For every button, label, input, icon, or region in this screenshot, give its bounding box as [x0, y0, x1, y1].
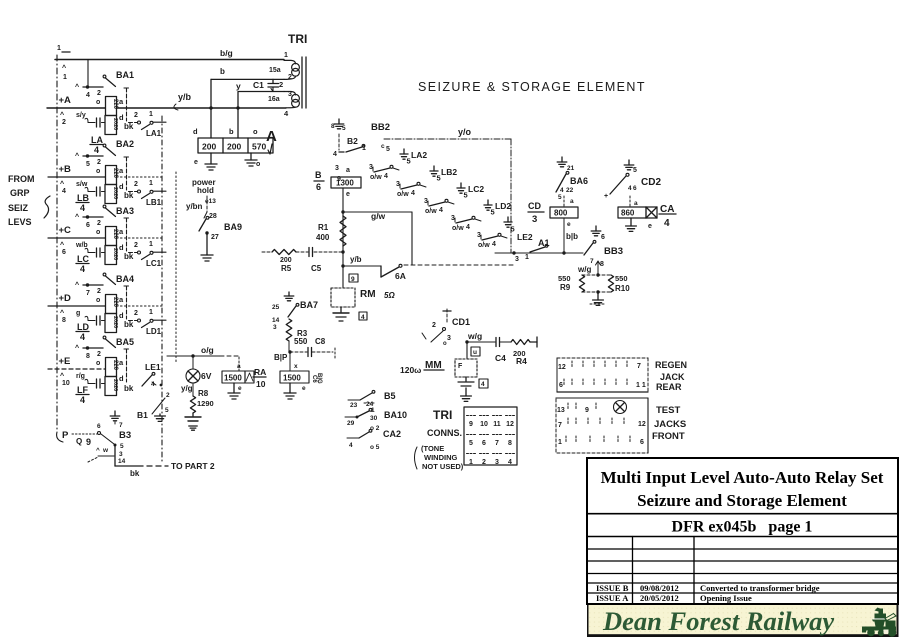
- wire y to TR1 pin3: [236, 81, 284, 92]
- relay contact LB1: [124, 180, 166, 207]
- svg-text:3: 3: [451, 215, 455, 222]
- svg-text:g: g: [76, 310, 80, 317]
- svg-text:Dean Forest Railway: Dean Forest Railway: [602, 606, 834, 636]
- svg-text:JACK: JACK: [660, 372, 685, 382]
- svg-text:3: 3: [447, 335, 451, 342]
- svg-text:4: 4: [80, 332, 85, 342]
- relay contact B1: [137, 392, 170, 421]
- svg-text:6: 6: [640, 439, 644, 446]
- relay contact LD1: [124, 309, 166, 336]
- svg-text:2: 2: [97, 351, 101, 358]
- svg-text:23: 23: [350, 402, 358, 409]
- wire y vertical: [237, 92, 239, 138]
- svg-text:6: 6: [86, 222, 90, 229]
- svg-text:5Ω: 5Ω: [384, 291, 395, 300]
- svg-text:Converted to transformer bridg: Converted to transformer bridge: [700, 583, 820, 593]
- node B/P capacitor C8 relay coil 1500: [274, 337, 335, 399]
- svg-text:2: 2: [166, 392, 170, 399]
- relay coil LD box: [96, 295, 124, 333]
- title text line2: [637, 491, 847, 510]
- issue row A: [596, 593, 752, 603]
- svg-text:R10: R10: [615, 284, 630, 293]
- svg-text:LB2: LB2: [441, 167, 457, 177]
- relay contact LA2 cascade: [369, 149, 427, 181]
- relay contact B2: [331, 119, 366, 183]
- capacitor LF: [85, 379, 105, 388]
- svg-text:27: 27: [211, 234, 219, 241]
- svg-text:o: o: [96, 297, 100, 304]
- svg-text:25: 25: [272, 304, 280, 311]
- svg-text:w/g: w/g: [577, 265, 591, 274]
- relay contact CA2: [347, 425, 401, 451]
- svg-text:c: c: [381, 143, 385, 150]
- svg-text:800: 800: [554, 209, 568, 218]
- svg-text:6V: 6V: [201, 371, 212, 381]
- svg-text:3: 3: [119, 451, 123, 458]
- relay coil CD 800: [528, 201, 578, 225]
- svg-text:220: 220: [112, 168, 118, 179]
- svg-text:o/w: o/w: [397, 191, 409, 198]
- relay coil MM 120ohm: [400, 342, 488, 401]
- relay coil B 1300: [314, 170, 361, 198]
- wire b to TR1 pin2: [211, 67, 284, 79]
- svg-text:7: 7: [590, 258, 594, 265]
- label TRI CONNS: [415, 408, 464, 471]
- svg-text:4: 4: [62, 188, 66, 195]
- svg-text:bk: bk: [124, 252, 134, 261]
- svg-text:d: d: [119, 243, 124, 252]
- wire cascade output: [495, 244, 583, 263]
- banner text Dean Forest Railway: [602, 606, 834, 636]
- svg-text:e: e: [346, 191, 350, 198]
- svg-text:w/g: w/g: [467, 331, 482, 341]
- relay contact BA7 and resistor R3 550: [272, 292, 318, 352]
- svg-text:LD1: LD1: [146, 327, 162, 336]
- svg-text:s/y: s/y: [76, 112, 86, 119]
- svg-text:a: a: [119, 358, 124, 367]
- relay contact LD2 cascade: [451, 200, 511, 232]
- svg-text:Seizure and Storage Element: Seizure and Storage Element: [637, 491, 847, 510]
- svg-text:2: 2: [134, 242, 138, 249]
- svg-text:d: d: [119, 374, 124, 383]
- relay coil RM: [331, 266, 395, 321]
- svg-text:4: 4: [411, 190, 415, 197]
- svg-text:b/g: b/g: [220, 48, 233, 58]
- relay contact B3 and wire TO PART 2: [62, 411, 215, 478]
- relay contact LE2 cascade: [477, 217, 515, 249]
- svg-text:4: 4: [80, 203, 85, 213]
- title text DFR ex045b page 1: [672, 519, 813, 536]
- capacitor LD: [85, 316, 105, 325]
- svg-text:4: 4: [284, 109, 289, 118]
- svg-text:RM: RM: [360, 289, 376, 300]
- relay contact 6A: [343, 255, 513, 281]
- node +B input label: [59, 164, 88, 195]
- svg-text:REGEN: REGEN: [655, 360, 687, 370]
- wire mid dot rail: [175, 172, 177, 362]
- svg-text:8: 8: [86, 353, 90, 360]
- svg-text:2: 2: [432, 322, 436, 329]
- svg-text:10: 10: [62, 380, 70, 387]
- svg-text:6: 6: [62, 249, 66, 256]
- wire drop to BA1: [62, 60, 88, 88]
- svg-text:Opening Issue: Opening Issue: [700, 593, 752, 603]
- svg-text:8: 8: [508, 440, 512, 447]
- svg-text:BA9: BA9: [224, 222, 242, 232]
- svg-text:DFR ex045b page 1: DFR ex045b page 1: [672, 519, 813, 536]
- wire y/o: [384, 127, 511, 253]
- svg-text:C8: C8: [315, 337, 326, 346]
- svg-text:F: F: [458, 363, 463, 370]
- svg-text:^: ^: [96, 446, 100, 454]
- svg-text:o/w: o/w: [370, 174, 382, 181]
- svg-text:7: 7: [86, 290, 90, 297]
- svg-text:2: 2: [134, 310, 138, 317]
- svg-text:JACKS: JACKS: [654, 419, 686, 430]
- svg-text:550: 550: [294, 337, 308, 346]
- svg-text:b: b: [229, 127, 234, 136]
- svg-text:e: e: [648, 223, 652, 230]
- svg-text:w/b: w/b: [75, 242, 88, 249]
- svg-text:y/bn: y/bn: [186, 202, 203, 211]
- svg-text:5: 5: [386, 146, 390, 153]
- svg-text:5: 5: [558, 194, 562, 201]
- svg-text:8: 8: [331, 123, 335, 130]
- svg-text:4: 4: [349, 442, 353, 449]
- title text line1: [601, 468, 884, 487]
- svg-text:2: 2: [97, 159, 101, 166]
- svg-text:20/05/2012: 20/05/2012: [640, 593, 679, 603]
- svg-text:x: x: [294, 363, 298, 370]
- svg-text:o: o: [256, 161, 260, 168]
- svg-text:a: a: [119, 295, 124, 304]
- svg-text:LF: LF: [77, 385, 88, 395]
- svg-text:R9: R9: [560, 283, 571, 292]
- svg-text:5: 5: [86, 161, 90, 168]
- relay contact BA5: [75, 336, 134, 382]
- svg-text:C4: C4: [495, 353, 506, 363]
- svg-text:1: 1: [469, 459, 473, 466]
- svg-text:Multi Input Level Auto-Auto Re: Multi Input Level Auto-Auto Relay Set: [601, 468, 884, 487]
- relay contact BA6: [556, 157, 588, 255]
- relay contact BA2: [75, 139, 134, 190]
- svg-text:P: P: [62, 430, 69, 441]
- svg-text:RA: RA: [254, 367, 266, 377]
- svg-text:g/w: g/w: [371, 211, 386, 221]
- svg-text:BA5: BA5: [116, 337, 134, 347]
- svg-text:^: ^: [75, 83, 79, 91]
- label REGEN JACK REAR: [655, 360, 687, 392]
- svg-text:6: 6: [559, 382, 563, 389]
- svg-text:7: 7: [119, 422, 123, 429]
- svg-text:+B: +B: [59, 164, 72, 175]
- svg-text:2020: 2020: [112, 316, 118, 328]
- capacitor C4 resistor R4 200: [465, 331, 537, 366]
- svg-text:1: 1: [525, 254, 529, 261]
- svg-text:4: 4: [664, 218, 670, 229]
- svg-text:1: 1: [63, 74, 67, 81]
- title block frame: [587, 458, 898, 604]
- svg-text:^: ^: [60, 111, 64, 119]
- relay contact BA10: [345, 407, 407, 427]
- svg-text:REAR: REAR: [656, 382, 682, 392]
- svg-text:6: 6: [482, 440, 486, 447]
- svg-text:5: 5: [469, 440, 473, 447]
- svg-text:2: 2: [482, 459, 486, 466]
- logo train: [862, 608, 896, 637]
- svg-text:3: 3: [288, 91, 292, 98]
- ground under bridge right: [245, 153, 260, 168]
- svg-text:1290: 1290: [197, 399, 214, 408]
- svg-text:4: 4: [439, 207, 443, 214]
- svg-text:13: 13: [557, 407, 565, 414]
- connector REGEN JACK REAR: [557, 358, 648, 392]
- svg-text:9: 9: [585, 407, 589, 414]
- svg-text:7: 7: [495, 440, 499, 447]
- svg-text:CD1: CD1: [452, 317, 470, 327]
- svg-text:d: d: [119, 182, 124, 191]
- svg-text:^: ^: [60, 241, 64, 249]
- svg-text:LD: LD: [77, 322, 89, 332]
- svg-text:B2: B2: [347, 136, 358, 146]
- svg-text:d: d: [193, 127, 198, 136]
- svg-text:CONNS.: CONNS.: [427, 428, 462, 438]
- wire b vertical: [209, 79, 212, 138]
- svg-text:+: +: [604, 193, 608, 200]
- issue row B: [596, 583, 820, 593]
- capacitor LA: [85, 118, 105, 127]
- svg-text:y/b: y/b: [350, 255, 362, 264]
- svg-text:r/g: r/g: [76, 373, 85, 380]
- relay contact BA9: [186, 196, 242, 261]
- label SEIZURE & STORAGE ELEMENT: [418, 80, 646, 94]
- svg-text:12: 12: [638, 421, 646, 428]
- svg-text:R1: R1: [318, 223, 329, 232]
- svg-text:3: 3: [532, 214, 537, 225]
- svg-text:a: a: [119, 166, 124, 175]
- svg-text:4: 4: [151, 381, 155, 388]
- svg-text:Q: Q: [76, 437, 82, 446]
- svg-text:2020: 2020: [112, 187, 118, 199]
- svg-text:6A: 6A: [395, 271, 406, 281]
- svg-text:3: 3: [369, 164, 373, 171]
- svg-text:^: ^: [60, 180, 64, 188]
- label LA/4: [90, 135, 103, 155]
- svg-text:120ω: 120ω: [400, 365, 421, 375]
- wire g/w: [343, 211, 412, 265]
- ground under bridge left: [194, 153, 217, 170]
- svg-text:9: 9: [469, 421, 473, 428]
- svg-text:FROM: FROM: [8, 174, 35, 184]
- svg-text:LB1: LB1: [146, 198, 162, 207]
- svg-text:y/b: y/b: [178, 92, 192, 102]
- svg-text:6: 6: [97, 423, 101, 430]
- svg-text:y: y: [236, 81, 241, 91]
- svg-text:3: 3: [495, 459, 499, 466]
- svg-text:3: 3: [273, 324, 277, 331]
- svg-text:GRP: GRP: [10, 188, 30, 198]
- svg-text:y/o: y/o: [458, 127, 472, 137]
- relay contact LC2 cascade: [424, 183, 484, 215]
- svg-text:ISSUE B: ISSUE B: [596, 583, 629, 593]
- svg-text:1: 1: [149, 180, 153, 187]
- svg-text:o: o: [253, 127, 258, 136]
- svg-text:LEVS: LEVS: [8, 217, 32, 227]
- svg-text:4: 4: [560, 187, 564, 194]
- svg-text:^: ^: [75, 281, 79, 289]
- svg-text:2: 2: [97, 90, 101, 97]
- node +A input label: [59, 95, 86, 126]
- svg-text:a: a: [119, 97, 124, 106]
- svg-text:d: d: [119, 113, 124, 122]
- node A: [266, 128, 277, 154]
- relay contact CD2: [604, 160, 661, 207]
- svg-text:b: b: [220, 67, 225, 76]
- svg-text:B1: B1: [137, 410, 148, 420]
- svg-text:TEST: TEST: [656, 405, 680, 416]
- svg-text:R5: R5: [281, 264, 292, 273]
- svg-text:o 5: o 5: [370, 444, 380, 451]
- svg-text:7: 7: [558, 422, 562, 429]
- relay coil LC box: [96, 227, 124, 265]
- svg-text:2: 2: [134, 112, 138, 119]
- label bk E: [124, 384, 134, 393]
- svg-text:o/w: o/w: [478, 242, 490, 249]
- transformer TR1: [253, 32, 307, 118]
- svg-text:860: 860: [621, 209, 635, 218]
- wire left bus rail: [57, 55, 63, 442]
- svg-text:y/g: y/g: [181, 384, 193, 393]
- label LE2 A1: [517, 232, 550, 248]
- svg-text:o: o: [96, 229, 100, 236]
- label power hold: [192, 178, 216, 205]
- svg-text:1: 1: [149, 241, 153, 248]
- label LD/4: [76, 322, 89, 342]
- svg-text:BA3: BA3: [116, 206, 134, 216]
- svg-text:550: 550: [615, 274, 628, 283]
- svg-text:a: a: [119, 227, 124, 236]
- svg-text:s/w: s/w: [76, 181, 88, 188]
- wire +A row: [47, 107, 286, 109]
- svg-text:o/w: o/w: [425, 208, 437, 215]
- svg-text:+C: +C: [59, 225, 72, 236]
- wire +D row: [48, 305, 162, 307]
- svg-text:a: a: [570, 198, 574, 205]
- svg-text:21: 21: [567, 165, 575, 172]
- svg-text:200: 200: [280, 257, 292, 264]
- svg-text:2: 2: [134, 181, 138, 188]
- svg-text:3: 3: [477, 232, 481, 239]
- svg-text:4: 4: [492, 241, 496, 248]
- svg-text:4: 4: [80, 264, 85, 274]
- svg-text:2020: 2020: [112, 118, 118, 130]
- svg-text:hold: hold: [197, 186, 214, 195]
- svg-text:220: 220: [112, 229, 118, 240]
- relay coil CA 860: [618, 204, 676, 231]
- svg-text:8: 8: [62, 317, 66, 324]
- svg-text:12: 12: [506, 421, 514, 428]
- svg-text:1: 1: [284, 52, 288, 59]
- svg-text:d: d: [119, 311, 124, 320]
- node +E input label: [59, 356, 85, 387]
- wire mid dash rail: [161, 116, 163, 462]
- svg-text:14: 14: [272, 317, 280, 324]
- svg-text:1 1: 1 1: [636, 382, 646, 389]
- relay coil LF box: [96, 358, 124, 396]
- node +C input label: [59, 225, 88, 256]
- svg-text:15a: 15a: [269, 67, 281, 74]
- svg-text:6: 6: [633, 185, 637, 192]
- svg-text:7: 7: [637, 363, 641, 370]
- wire B coil down: [341, 188, 344, 288]
- svg-text:e: e: [194, 159, 198, 166]
- relay contact BA3: [75, 205, 134, 251]
- resistor network 200/200/570: [193, 127, 273, 153]
- svg-text:a: a: [634, 200, 638, 207]
- node +D input label: [59, 293, 81, 324]
- svg-text:16a: 16a: [268, 96, 280, 103]
- svg-text:2020: 2020: [112, 379, 118, 391]
- wire b/g top bus: [55, 45, 284, 60]
- relay contact LA1: [124, 111, 166, 138]
- label BB2: [371, 122, 390, 133]
- svg-text:10: 10: [480, 421, 488, 428]
- svg-text:BA7: BA7: [300, 300, 318, 310]
- svg-text:5: 5: [633, 167, 637, 174]
- svg-text:BA2: BA2: [116, 139, 134, 149]
- svg-text:4: 4: [361, 314, 365, 321]
- svg-text:9: 9: [86, 437, 91, 447]
- svg-text:A: A: [266, 128, 277, 145]
- svg-text:4: 4: [628, 185, 632, 192]
- svg-text:BA6: BA6: [570, 176, 588, 186]
- svg-text:2: 2: [62, 119, 66, 126]
- svg-text:o: o: [96, 168, 100, 175]
- svg-text:TRI: TRI: [288, 32, 307, 46]
- svg-text:4: 4: [86, 92, 90, 99]
- svg-text:4: 4: [333, 151, 337, 158]
- svg-text:+A: +A: [59, 95, 72, 106]
- svg-text:LA: LA: [91, 135, 103, 145]
- svg-text:bk: bk: [124, 320, 134, 329]
- svg-text:o 2: o 2: [370, 425, 380, 432]
- relay contact BA1: [75, 70, 134, 121]
- resistor R5 200 and capacitor C5: [262, 248, 343, 274]
- svg-text:LA2: LA2: [411, 150, 427, 160]
- svg-text:2: 2: [97, 220, 101, 227]
- svg-text:2: 2: [279, 80, 283, 89]
- label LF/4: [76, 385, 89, 405]
- svg-text:12: 12: [558, 364, 566, 371]
- svg-text:29: 29: [347, 420, 355, 427]
- svg-text:4: 4: [80, 395, 85, 405]
- wire y/b label: [174, 92, 240, 110]
- svg-text:o: o: [96, 360, 100, 367]
- svg-text:550: 550: [558, 274, 571, 283]
- svg-text:2: 2: [288, 74, 292, 81]
- svg-text:CD2: CD2: [641, 177, 661, 188]
- svg-text:C1: C1: [253, 80, 264, 90]
- svg-text:570: 570: [252, 142, 266, 152]
- svg-text:220: 220: [112, 297, 118, 308]
- wire o/g: [167, 345, 239, 358]
- svg-text:LB: LB: [77, 193, 89, 203]
- svg-text:BA10: BA10: [384, 410, 407, 420]
- svg-text:6: 6: [316, 182, 321, 192]
- svg-text:5: 5: [165, 407, 169, 414]
- svg-text:4: 4: [466, 224, 470, 231]
- label LB/4: [76, 193, 89, 213]
